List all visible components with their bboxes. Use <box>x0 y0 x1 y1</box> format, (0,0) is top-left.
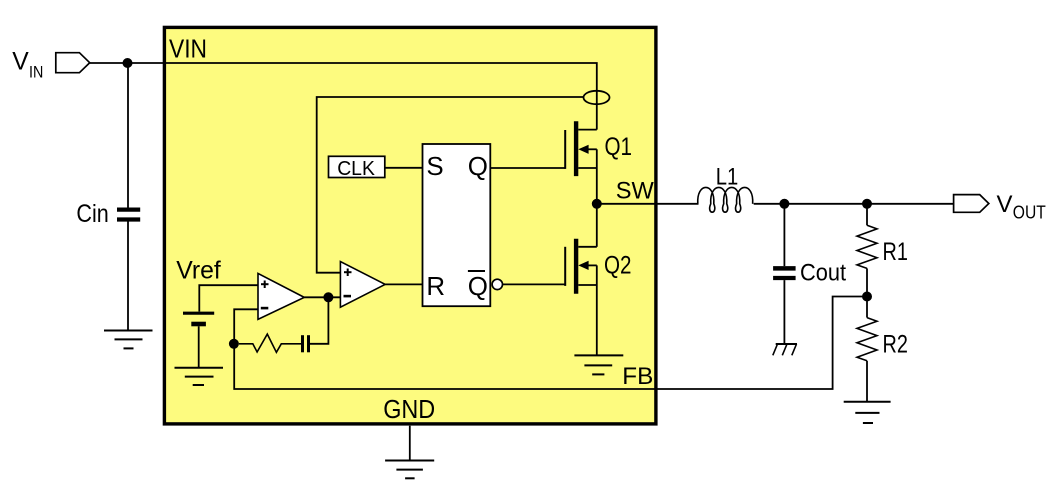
svg-text:VIN: VIN <box>169 36 207 64</box>
ground Vref <box>175 368 224 385</box>
wire R1 bottom <box>866 268 868 296</box>
wire Vref to error amp <box>199 285 258 311</box>
wire FB net <box>234 297 867 390</box>
wire Qbar to Q2 gate <box>503 283 566 285</box>
wire GND pin stub <box>409 426 411 461</box>
node error amp output <box>323 292 333 302</box>
resistor R2 <box>857 318 877 361</box>
svg-text:Vref: Vref <box>176 257 221 284</box>
output port connector <box>954 195 989 213</box>
battery Vref <box>183 313 214 324</box>
wire compensation to node <box>310 297 328 344</box>
svg-text:Cin: Cin <box>76 200 108 228</box>
capacitor Cin <box>117 210 140 220</box>
ground R2 <box>844 402 891 423</box>
node FB divider <box>862 292 872 302</box>
svg-text:R2: R2 <box>883 331 908 358</box>
svg-text:SW: SW <box>616 177 654 204</box>
ground Cin <box>104 331 153 349</box>
wire current sense to comparator <box>317 97 584 273</box>
svg-text:FB: FB <box>622 363 653 390</box>
wire battery to ground <box>198 326 200 368</box>
wire R1 top <box>866 204 868 226</box>
input port connector <box>56 53 90 73</box>
svg-text:OUT: OUT <box>1013 203 1046 223</box>
wire Cin bottom <box>127 222 129 331</box>
chassis ground Cout <box>773 344 797 355</box>
wire VIN rail <box>90 63 597 130</box>
svg-text:Q1: Q1 <box>605 133 633 161</box>
op-amp error amplifier <box>258 273 304 319</box>
node SW <box>592 199 602 209</box>
wire Cin top <box>127 63 129 208</box>
wire error amp output <box>304 296 340 298</box>
IC block U1 <box>164 27 656 424</box>
node Cout <box>779 199 789 209</box>
wire L1 to VOUT <box>754 203 954 205</box>
node R1 top <box>862 199 872 209</box>
transistor Q2 <box>565 204 597 356</box>
svg-text:IN: IN <box>29 63 43 82</box>
wire R2 top <box>866 297 868 318</box>
inductor L1 <box>698 187 753 212</box>
wire error amp inverting input <box>234 309 258 344</box>
resistor R1 <box>857 225 877 268</box>
svg-text:Q: Q <box>468 153 488 181</box>
svg-text:GND: GND <box>383 396 435 424</box>
wire CLK to S <box>385 167 423 169</box>
ground GND pin <box>385 461 434 479</box>
wire Cout bottom <box>783 280 785 344</box>
resistor compensation <box>239 334 301 352</box>
latch SR <box>423 144 491 306</box>
svg-text:R: R <box>426 273 445 301</box>
svg-text:L1: L1 <box>716 165 739 191</box>
svg-text:S: S <box>426 153 443 181</box>
wire Cout top <box>783 204 785 266</box>
svg-text:Q: Q <box>468 273 488 301</box>
svg-text:Cout: Cout <box>800 260 846 287</box>
svg-text:R1: R1 <box>883 239 908 266</box>
wire comparator to R <box>385 283 422 285</box>
svg-text:V: V <box>997 191 1013 218</box>
node compensation <box>229 339 239 349</box>
wire Q to Q1 gate <box>490 167 565 169</box>
svg-text:V: V <box>12 49 29 76</box>
current sense loop <box>584 91 610 104</box>
svg-text:Q2: Q2 <box>604 252 632 280</box>
clock source CLK <box>329 156 385 180</box>
capacitor Cout <box>773 268 796 278</box>
wire SW rail <box>597 203 699 205</box>
transistor Q1 <box>565 121 597 204</box>
capacitor compensation <box>303 335 309 352</box>
ground Q2 source <box>574 355 623 374</box>
wire R2 bottom <box>866 361 868 402</box>
inverter bubble Qbar <box>492 279 502 289</box>
op-amp PWM comparator <box>340 262 385 308</box>
svg-text:CLK: CLK <box>337 157 375 180</box>
node VIN junction <box>123 58 133 68</box>
